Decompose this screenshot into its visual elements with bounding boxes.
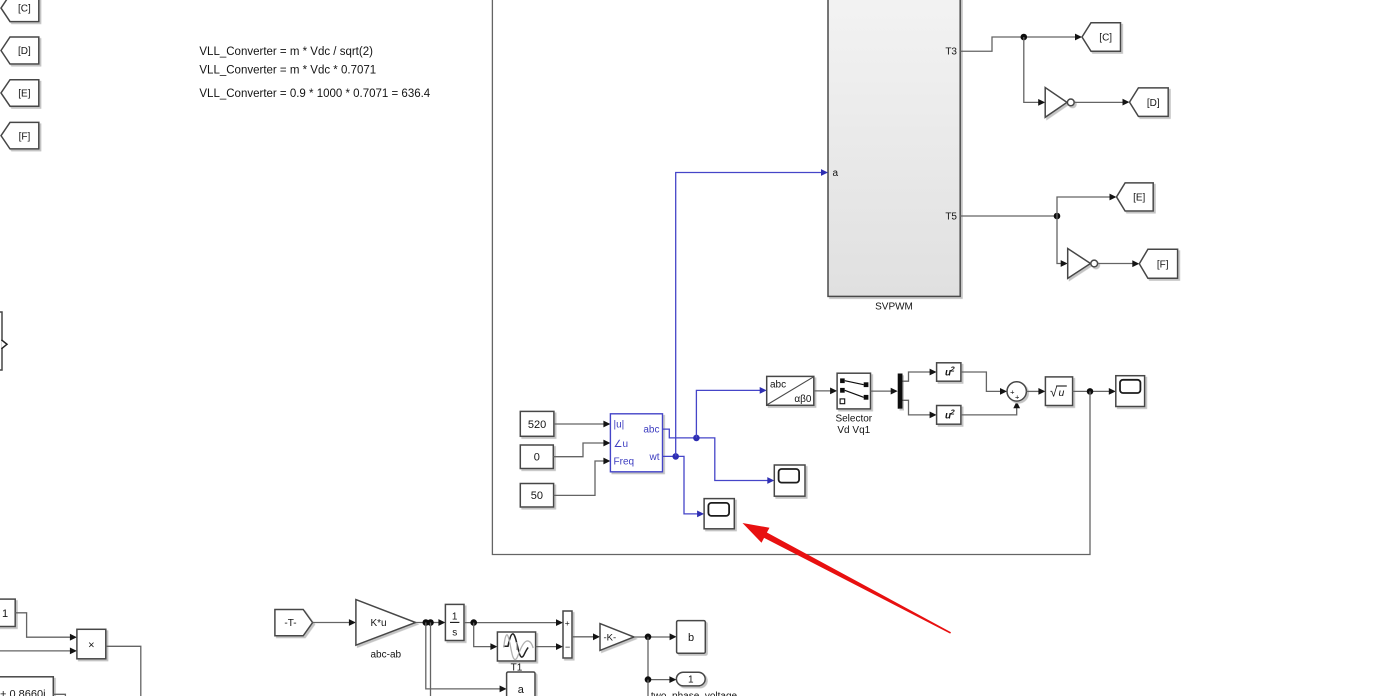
wire NOT1 to D <box>1074 101 1123 103</box>
svg-text:Freq: Freq <box>614 457 635 468</box>
subsystem SVPWM <box>828 0 960 313</box>
constant 520 <box>520 411 554 436</box>
svg-text:√: √ <box>1050 385 1058 400</box>
svg-text:[F]: [F] <box>19 131 31 142</box>
feedback wire down-left-up <box>492 0 1090 555</box>
junction on T3 wire <box>1021 34 1028 41</box>
svg-text:520: 520 <box>528 419 546 431</box>
wire T3 branch to NOT1 <box>1024 37 1040 102</box>
svg-text:-T-: -T- <box>284 618 296 629</box>
wire NOT2 to F <box>1098 263 1133 265</box>
svg-text:αβ0: αβ0 <box>794 394 812 405</box>
wire gain to integrator <box>416 622 440 624</box>
outport 1 <box>676 672 705 686</box>
svg-text:VLL_Converter = 0.9 * 1000 * 0: VLL_Converter = 0.9 * 1000 * 0.7071 = 63… <box>199 88 430 100</box>
svg-text:b: b <box>688 632 694 644</box>
integrator 1/s <box>445 604 464 640</box>
junction at outport branch <box>645 676 652 683</box>
junction on T5 wire <box>1054 213 1061 220</box>
svg-text:×: × <box>88 639 94 651</box>
svg-text:2: 2 <box>950 365 956 374</box>
wire T3 to C <box>960 37 1076 51</box>
svg-text:1: 1 <box>2 608 8 620</box>
svg-text:+: + <box>1015 392 1020 401</box>
svg-text:[F]: [F] <box>1157 259 1169 270</box>
wire -T- to gain <box>313 622 350 624</box>
logic NOT1 <box>1045 88 1074 118</box>
wire wt branch up to SVPWM input a <box>676 173 822 457</box>
wire T5 branch down to NOT2 <box>1057 216 1062 264</box>
wire wt output down to bottom scope <box>663 456 698 514</box>
svg-text:T3: T3 <box>945 47 957 58</box>
wire integrator to sum <box>464 622 557 624</box>
wire continuing below <box>647 680 649 696</box>
svg-text:[E]: [E] <box>18 89 30 100</box>
wire sum to gain -K- <box>572 636 594 638</box>
svg-text:+: + <box>565 618 570 628</box>
svg-text:abc-ab: abc-ab <box>371 650 402 661</box>
svg-text:SVPWM: SVPWM <box>875 302 913 313</box>
wire T1 to sum minus <box>536 646 557 648</box>
svg-text:1: 1 <box>452 612 458 623</box>
svg-text:50: 50 <box>531 490 543 502</box>
svg-text:wt: wt <box>649 452 660 463</box>
sqrt block <box>1045 377 1072 406</box>
sum rectangle <box>563 611 572 658</box>
goto tag E (right) <box>1117 183 1154 211</box>
abc to alpha-beta-0 transform block <box>767 376 814 405</box>
wire -K- to b <box>634 636 670 638</box>
product block <box>77 629 106 659</box>
svg-text:[E]: [E] <box>1133 193 1145 204</box>
goto tag D (left) <box>1 37 39 64</box>
partial block 0.8660i <box>0 677 53 696</box>
wire u2 upper to sum <box>961 372 1001 391</box>
svg-text:−: − <box>565 642 570 652</box>
svg-text:1: 1 <box>688 675 694 686</box>
svg-text:s: s <box>452 628 457 639</box>
svg-text:u: u <box>1059 387 1065 399</box>
math u^2 lower <box>937 406 961 425</box>
wire 520 to source <box>554 423 604 425</box>
sum junction circle <box>1007 382 1026 402</box>
svg-text:[D]: [D] <box>1147 98 1160 109</box>
red annotation arrow <box>743 523 952 634</box>
junction dots after gain <box>423 619 430 626</box>
wire sqrt to scope <box>1073 390 1110 392</box>
svg-text:[C]: [C] <box>18 4 31 15</box>
wire 0 to source <box>553 443 604 457</box>
wire stub from 0.8660i block <box>53 694 65 696</box>
junction after sqrt <box>1087 388 1094 395</box>
logic NOT2 <box>1068 249 1098 279</box>
junction after integrator <box>470 619 477 626</box>
wire abc branch up to abc-ab0 transform <box>696 390 760 438</box>
scope middle <box>774 465 805 496</box>
svg-text:∠u: ∠u <box>614 439 629 450</box>
scope bottom <box>704 499 734 529</box>
svg-text:0: 0 <box>534 452 540 464</box>
svg-text:abc: abc <box>770 379 786 390</box>
svg-text:2: 2 <box>950 407 956 416</box>
partial block at left edge <box>0 312 7 370</box>
scope right <box>1116 376 1145 407</box>
constant 50 <box>520 484 553 508</box>
svg-text:a: a <box>833 168 839 179</box>
wire demux to u2 upper <box>903 372 931 381</box>
svg-text:+ 0.8660i: + 0.8660i <box>0 689 46 696</box>
constant 0 <box>520 445 553 469</box>
junction on abc wire <box>693 435 700 442</box>
wire T5 <box>960 215 1057 217</box>
math u^2 upper <box>937 363 961 381</box>
wire block1 to product <box>15 613 70 637</box>
selector block <box>837 373 870 409</box>
svg-text:T5: T5 <box>945 212 957 223</box>
wire abc output to alpha-beta block and middle scope <box>663 429 769 480</box>
wire transform to selector <box>814 390 831 392</box>
wire left edge to product <box>0 650 71 652</box>
demux <box>898 374 903 409</box>
partial block 1 (bottom-left) <box>0 599 15 626</box>
goto tag C (right) <box>1082 23 1121 52</box>
wire product output down <box>106 646 141 696</box>
source block (three-phase generator, blue) <box>610 414 662 472</box>
svg-text:abc: abc <box>643 425 659 436</box>
svg-text:Vd Vq1: Vd Vq1 <box>837 425 870 436</box>
goto tag C (top-left) <box>1 0 39 22</box>
gain abc-ab K*u <box>356 600 416 646</box>
junction after -K- <box>645 634 652 641</box>
wire branch to T1 <box>474 623 492 647</box>
svg-text:-K-: -K- <box>604 633 617 644</box>
wire branch down offscreen <box>430 623 432 696</box>
from tag -T- <box>275 610 313 636</box>
block b <box>677 621 706 654</box>
svg-text:two_phase_voltage: two_phase_voltage <box>651 691 738 696</box>
svg-text:[D]: [D] <box>18 46 31 57</box>
wire branch down to a <box>426 623 501 689</box>
transport delay T1 <box>497 632 535 661</box>
goto tag F (right) <box>1139 249 1177 278</box>
svg-text:[C]: [C] <box>1099 33 1112 44</box>
wire sum to sqrt <box>1026 390 1039 392</box>
svg-text:Selector: Selector <box>835 414 872 425</box>
wire demux to u2 lower <box>903 400 931 415</box>
svg-text:a: a <box>518 684 525 696</box>
goto tag E (left) <box>1 80 39 107</box>
wire T5 branch up to E <box>1057 197 1110 216</box>
svg-text:VLL_Converter = m * Vdc * 0.70: VLL_Converter = m * Vdc * 0.7071 <box>199 64 376 76</box>
svg-text:|u|: |u| <box>614 420 625 431</box>
block a <box>507 672 535 696</box>
goto tag D (right) <box>1130 88 1169 117</box>
wire u2 lower to sum <box>961 407 1017 415</box>
gain -K- <box>600 624 634 651</box>
wire 50 to source <box>554 461 605 495</box>
wire selector to demux <box>871 390 892 392</box>
goto tag F (left) <box>1 122 39 148</box>
svg-text:VLL_Converter = m * Vdc / sqrt: VLL_Converter = m * Vdc / sqrt(2) <box>199 46 373 58</box>
svg-text:K*u: K*u <box>370 618 386 629</box>
junction on wt wire <box>672 453 679 460</box>
wire branch to outport <box>648 637 670 680</box>
